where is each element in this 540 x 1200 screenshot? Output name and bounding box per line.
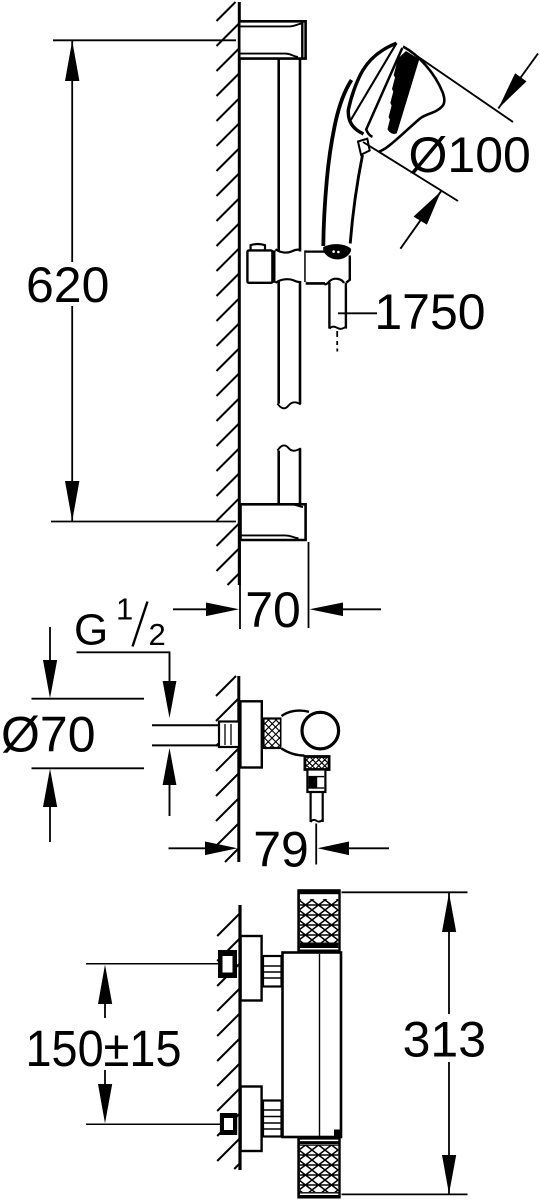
G1/2 lower arrow: [163, 748, 177, 816]
bottom knob: [297, 1137, 340, 1199]
slider body: [247, 250, 272, 282]
elbow arm + ball: [282, 709, 339, 757]
nozzle band (dark): [388, 51, 420, 134]
centerline bottom union: [86, 1123, 237, 1125]
dim 313: [342, 892, 468, 1194]
svg-text:70: 70: [245, 582, 301, 638]
bottom wall bracket: [241, 504, 306, 540]
top union nut: [263, 956, 282, 987]
wall (bottom): [217, 914, 239, 1169]
bottom union nut: [263, 1101, 282, 1137]
hose dashed continuation: [336, 331, 338, 352]
bottom escutcheon: [241, 1087, 262, 1152]
wall (middle): [216, 676, 238, 862]
dim 620 extension bottom: [51, 521, 236, 523]
dim 620 extension top: [53, 39, 236, 41]
svg-text:1: 1: [116, 592, 133, 627]
handle left silhouette: [323, 80, 351, 246]
hose tube: [311, 792, 323, 822]
handle right edge: [350, 155, 362, 244]
hand shower: [323, 43, 444, 246]
supply pipe stub: [152, 722, 239, 748]
face front line: [351, 43, 397, 120]
svg-text:150±15: 150±15: [26, 1020, 182, 1077]
top knob: [297, 889, 340, 952]
slider over-rail section: [276, 249, 305, 283]
svg-text:Ø100: Ø100: [409, 127, 531, 183]
holder arm: [306, 252, 350, 284]
top escutcheon: [241, 936, 262, 1001]
escutcheon (middle): [240, 701, 261, 767]
dim 620 line: [65, 41, 79, 521]
svg-text:1750: 1750: [374, 284, 485, 340]
G1/2 leader: [77, 652, 177, 718]
union nut (knurled): [264, 719, 282, 749]
svg-text:79: 79: [253, 822, 309, 878]
slider divider right: [304, 250, 307, 282]
face rim arc: [348, 43, 396, 134]
leader 1750: [338, 312, 377, 314]
svg-text:G: G: [74, 606, 108, 655]
centerline top union: [86, 963, 237, 965]
dim Ø70: [32, 627, 145, 842]
top pipe box: [218, 950, 237, 978]
hose below holder: [325, 279, 346, 352]
rail upper segment: [278, 59, 301, 409]
label G 1/2: [74, 592, 166, 655]
holder cone opening (dark): [323, 244, 351, 259]
dim 70: [173, 542, 381, 629]
mode lever: [358, 139, 370, 155]
thermostat body: [283, 953, 342, 1138]
wall: [217, 2, 239, 585]
slider divider left: [273, 250, 276, 282]
bottom pipe box: [220, 1113, 237, 1135]
svg-text:313: 313: [403, 1012, 486, 1068]
top wall bracket: [241, 21, 306, 58]
hose knurled band: [305, 757, 329, 770]
dim 150±15: [98, 965, 112, 1124]
svg-text:2: 2: [149, 617, 166, 652]
svg-text:620: 620: [26, 257, 109, 313]
slider lock knob: [251, 244, 265, 250]
svg-text:Ø70: Ø70: [1, 707, 96, 763]
rail break squiggle (upper end): [278, 402, 301, 408]
hose upper cylinder: [307, 770, 325, 793]
face second line: [366, 48, 402, 137]
dim Ø100: [363, 54, 538, 249]
head back outline: [379, 47, 445, 152]
rail lower segment: [278, 445, 301, 505]
dim 79: [169, 824, 390, 865]
